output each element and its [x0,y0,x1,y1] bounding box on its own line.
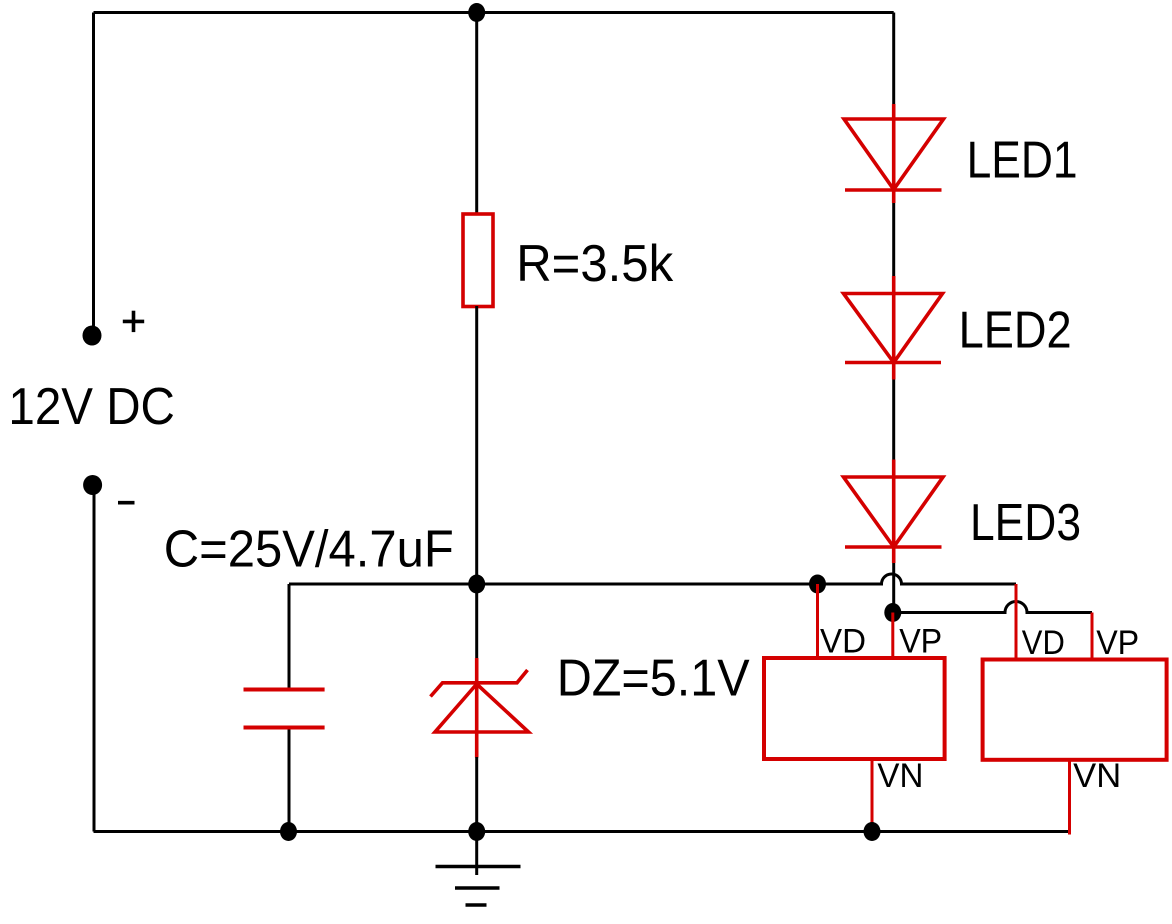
node wire1/IC1 VD junction [809,575,826,594]
node VN1/bottom junction [864,822,881,841]
wire2 net B horizontal with hop over VD2 drop [893,602,1092,613]
svg-text:VD: VD [820,623,866,661]
node B LED3/wire2 junction [884,603,901,622]
node mid/wire1 junction [468,575,485,594]
svg-text:VD: VD [1022,624,1065,662]
wire top rail [94,11,894,14]
svg-text:LED1: LED1 [967,131,1078,189]
wire LED3 to node B [892,563,895,613]
wire bottom rail [94,830,1070,833]
wire1 net A horizontal with hop over LED column [289,574,1016,584]
svg-text:VP: VP [1096,624,1139,662]
wire IC2 VD pin drop [1015,584,1018,662]
resistor R [463,214,493,307]
wire IC1 VP pin drop [891,613,894,661]
wire left rail upper [92,13,95,335]
wire IC1 VD pin drop [816,584,819,660]
LED2 [844,276,943,380]
node junction top [468,3,485,22]
wire left rail lower [93,485,96,832]
node zener/bottom junction [468,822,485,841]
LED3 [844,460,944,564]
svg-text:C=25V/4.7uF: C=25V/4.7uF [164,521,454,579]
wire U2 VN pin [1068,760,1071,835]
label - [118,501,135,505]
svg-text:LED2: LED2 [959,302,1072,360]
IC U1 [764,658,945,759]
wire IC2 VP pin drop [1091,613,1094,663]
IC U2 [983,660,1167,760]
wire LED1-LED2 [892,203,895,277]
node + terminal [83,326,102,346]
svg-text:VN: VN [1073,757,1121,795]
wire mid rail middle [475,306,478,659]
wire zener to bottom rail [475,757,478,832]
zener diode DZ [431,658,529,758]
svg-text:LED3: LED3 [970,494,1081,552]
svg-text:12V DC: 12V DC [8,378,175,436]
ground [436,832,521,906]
wire U1 VN pin [871,759,874,832]
wire mid rail top [475,13,478,216]
svg-text:VP: VP [899,623,942,661]
LED1 [844,104,944,203]
wire right rail top [892,13,895,106]
label + [123,311,144,332]
capacitor C [244,584,325,832]
wire LED2-LED3 [892,380,895,461]
svg-text:DZ=5.1V: DZ=5.1V [557,650,750,708]
svg-text:VN: VN [877,757,923,795]
node - terminal [83,475,102,495]
node cap/bottom junction [280,822,297,841]
svg-text:R=3.5k: R=3.5k [516,235,674,293]
